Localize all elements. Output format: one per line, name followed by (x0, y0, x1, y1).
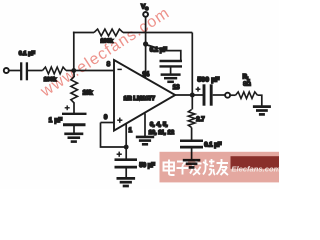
svg-text:3, 4, 5,: 3, 4, 5, (150, 122, 168, 128)
svg-text:2.7: 2.7 (196, 117, 205, 123)
wire: node C to C3 (125, 147, 127, 160)
wire: node A up to feedback rail (73, 32, 75, 71)
wire: R3 to C6 (73, 103, 75, 115)
banner dark red ribbon behind Elecfans.com (231, 156, 280, 169)
svg-text:Elecfans.com: Elecfans.com (231, 165, 279, 174)
banner text: Chinese characters dian zi fa shao you (white) (164, 159, 229, 175)
wire: input terminal to C1 (9, 70, 21, 72)
svg-text:10, 11, 12: 10, 11, 12 (149, 130, 174, 136)
op-amp inverting input minus sign (117, 68, 121, 70)
resistor R3 10k (input bias to ground) (71, 77, 78, 104)
wire: node D down to R5 (191, 95, 193, 110)
wire: output terminal to RL (230, 94, 235, 96)
wire: pin 9 loop down (101, 123, 127, 148)
ground below RL (253, 105, 271, 108)
capacitor C3 50 uF polarized (bypass pin 1) (115, 160, 138, 178)
ground below C6 (64, 133, 83, 136)
svg-text:RL: RL (243, 75, 250, 81)
capacitor C6 1 uF polarized (62, 114, 87, 134)
op-amp U1 1/2 LM1877 triangle (114, 60, 175, 131)
svg-text:1/2 LM1877: 1/2 LM1877 (124, 96, 156, 102)
node D output junction dot (190, 93, 195, 98)
ground below C3 (117, 177, 136, 180)
svg-text:0.1 µF: 0.1 µF (204, 142, 221, 148)
wire: pin 9 non-inverting input (101, 122, 115, 124)
wire: top feedback rail right segment (123, 32, 192, 34)
wire: node B to bypass capacitor C2 (146, 45, 181, 62)
wire: C4 to output terminal (213, 94, 225, 96)
capacitor C5 0.1 uF (Zobel) (180, 141, 203, 160)
svg-text:13: 13 (173, 85, 180, 91)
wire: R1 to op-amp inverting input, pin 8 (66, 70, 114, 72)
node A junction dot (inverting input node) (71, 68, 76, 73)
svg-text:10k: 10k (83, 91, 94, 97)
wire: VS down to op-amp pin 14 (145, 17, 147, 78)
bottom-right watermark banner (160, 152, 280, 183)
svg-text:500 µF: 500 µF (198, 77, 220, 84)
capacitor C4 500 uF output coupling (204, 84, 211, 105)
node B junction dot on supply line (143, 41, 148, 46)
capacitor C1 0.1 uF (input coupling) (21, 62, 27, 80)
wire: top feedback rail left segment (73, 32, 94, 34)
wire: pin 1 down to node C (125, 124, 127, 147)
wire: feedback rail down to output node (191, 33, 193, 96)
output terminal (225, 93, 230, 98)
wire: op-amp output pin 13 (174, 94, 203, 96)
svg-text:14: 14 (142, 72, 149, 78)
node C junction dot (124, 145, 129, 150)
resistor R2 100k (feedback) (94, 29, 123, 36)
label C3 plus sign (117, 152, 122, 157)
ground for pins 3,4,5,10,11,12 (136, 136, 154, 139)
svg-text:0.1 µF: 0.1 µF (19, 51, 36, 57)
input terminal (audio in) (4, 68, 9, 73)
op-amp non-inverting input plus sign (117, 118, 122, 123)
resistor RL 8 ohm load (236, 92, 258, 99)
supply terminal VS (143, 12, 148, 17)
ground below C2 (161, 73, 181, 76)
capacitor C2 0.1 uF supply bypass (160, 61, 183, 74)
svg-text:0.1 µF: 0.1 µF (150, 48, 167, 54)
wire: C1 to R1 (28, 70, 43, 72)
svg-text:50 µF: 50 µF (139, 163, 155, 169)
wire: RL to ground (258, 95, 262, 106)
label C4 plus sign (196, 87, 201, 92)
resistor R5 2.7 ohm (Zobel) (188, 110, 195, 128)
svg-text:1 µF: 1 µF (49, 117, 63, 124)
label C6 plus sign (65, 105, 70, 110)
ground below C5 (183, 159, 201, 162)
svg-text:8Ω: 8Ω (243, 81, 251, 87)
wire: R5 to C5 (191, 128, 193, 142)
wire: pins 3,4,5,10,11,12 to ground (144, 114, 146, 137)
resistor R1 100k (series input) (43, 67, 67, 74)
